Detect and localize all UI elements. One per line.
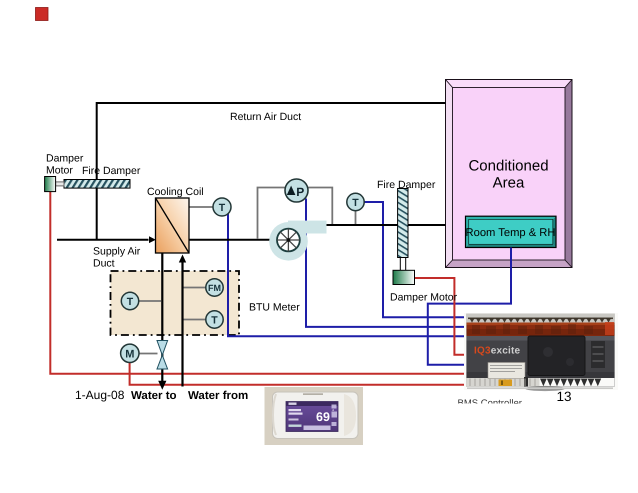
- sensor FM in BTU meter: [206, 279, 223, 296]
- svg-text:Duct: Duct: [93, 258, 115, 270]
- gray sensing line dP right leg: [307, 188, 332, 225]
- IQ3 controller photo: [464, 313, 618, 391]
- damper motor label left: [46, 153, 84, 177]
- wire red from left damper motor to controller: [50, 192, 467, 374]
- damper motor right: [393, 270, 415, 284]
- chilled water return pipe (water from) with up arrow: [181, 262, 183, 387]
- supply air duct line with arrow into coil: [57, 239, 149, 241]
- damper motor shaft left: [56, 182, 64, 186]
- svg-text:T: T: [211, 315, 218, 327]
- damper motor shaft right: [400, 258, 405, 271]
- wire blue from room sensor to controller: [428, 248, 511, 365]
- valve (two triangles): [157, 341, 168, 370]
- sensor T at supply duct: [347, 193, 364, 210]
- sensor T2 in BTU meter: [206, 311, 223, 328]
- fan housing: [269, 221, 326, 261]
- sensor T at coil outlet: [213, 198, 231, 216]
- conditioned area room (bevel frame box): [446, 80, 573, 268]
- svg-text:Cooling Coil: Cooling Coil: [147, 186, 204, 198]
- gray stem duct T sensor: [355, 211, 357, 224]
- gray stem coil T sensor: [189, 206, 213, 208]
- fan wheel: [277, 229, 300, 252]
- duct line coil to fan: [189, 239, 271, 241]
- duct line fan outlet to conditioned area: [327, 224, 446, 226]
- fire damper (return duct, horizontal): [64, 180, 130, 189]
- svg-text:Water from: Water from: [188, 390, 248, 402]
- wire red from right damper motor to controller: [414, 278, 467, 355]
- svg-text:T: T: [219, 202, 226, 214]
- svg-text:Room Temp & RH: Room Temp & RH: [466, 227, 556, 239]
- conditioned area label: [468, 158, 548, 192]
- svg-text:69: 69: [316, 410, 330, 424]
- chilled water supply pipe (water to) with down arrow: [161, 253, 163, 382]
- svg-text:P: P: [296, 185, 304, 199]
- gray stem BTU T1 sensor: [139, 300, 161, 302]
- gray stem BTU T2 sensor: [184, 319, 207, 321]
- wire red from valve motor M to controller: [130, 361, 467, 385]
- svg-text:T: T: [352, 197, 359, 209]
- return air duct line: [97, 103, 446, 240]
- cooling coil: [156, 198, 190, 253]
- svg-text:13: 13: [556, 389, 571, 404]
- svg-text:Area: Area: [493, 175, 525, 192]
- room temp &amp; RH sensor box (bevel): [466, 216, 557, 247]
- svg-text:Conditioned: Conditioned: [468, 158, 548, 175]
- wire blue from dP sensor to controller: [306, 199, 467, 327]
- small red marker top-left: [36, 8, 49, 21]
- BTU meter dashed enclosure: [111, 271, 240, 335]
- svg-text:Damper Motor: Damper Motor: [390, 292, 458, 304]
- svg-text:Fire Damper: Fire Damper: [82, 165, 141, 177]
- fire damper (supply duct, vertical): [398, 189, 408, 258]
- svg-text:BTU Meter: BTU Meter: [249, 302, 300, 314]
- differential pressure sensor dP: [285, 179, 308, 202]
- wire blue from coil T sensor / BTU meter to controller: [228, 214, 467, 337]
- wire blue from T sensor near fire damper to controller: [364, 202, 467, 317]
- svg-text:1-Aug-08: 1-Aug-08: [75, 388, 125, 402]
- svg-text:Water to: Water to: [131, 390, 177, 402]
- svg-text:Supply Air: Supply Air: [93, 246, 141, 258]
- damper motor left: [45, 177, 56, 192]
- svg-text:Fire Damper: Fire Damper: [377, 179, 436, 191]
- svg-text:M: M: [125, 349, 134, 361]
- gray sensing line dP left leg: [258, 188, 286, 239]
- svg-text:Damper: Damper: [46, 153, 84, 165]
- gray stem FM sensor: [184, 287, 207, 289]
- svg-text:IQ3excite: IQ3excite: [474, 346, 521, 357]
- gray stem valve motor M: [138, 353, 158, 355]
- valve motor M: [121, 344, 139, 362]
- sensor T1 in BTU meter: [121, 292, 138, 309]
- svg-text:FM: FM: [208, 283, 221, 293]
- svg-text:Return Air Duct: Return Air Duct: [230, 111, 301, 123]
- svg-text:Motor: Motor: [46, 165, 73, 177]
- supply air duct label: [93, 246, 141, 270]
- svg-text:T: T: [127, 296, 134, 308]
- thermostat photo: [265, 387, 364, 445]
